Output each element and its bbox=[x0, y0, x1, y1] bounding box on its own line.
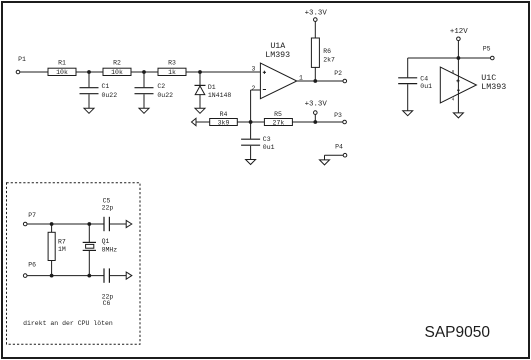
wire P1 to R1 bbox=[20, 71, 48, 73]
op-amp U1C bbox=[440, 67, 506, 103]
resistor R2 bbox=[103, 59, 131, 76]
svg-text:0u1: 0u1 bbox=[263, 144, 275, 151]
svg-text:P2: P2 bbox=[334, 70, 342, 77]
svg-text:8MHz: 8MHz bbox=[102, 246, 118, 253]
junction node D bbox=[249, 120, 253, 124]
resistor R1 bbox=[48, 59, 76, 76]
junction node E bbox=[313, 120, 317, 124]
ground below C3 bbox=[246, 160, 256, 165]
svg-text:1M: 1M bbox=[58, 246, 66, 253]
arrow feedback in bbox=[192, 118, 197, 125]
svg-text:22p: 22p bbox=[102, 204, 114, 211]
svg-text:U1C: U1C bbox=[481, 74, 496, 83]
wire pin2 to feedback node bbox=[251, 90, 261, 122]
svg-text:R6: R6 bbox=[323, 48, 331, 55]
node P4 bbox=[335, 144, 347, 157]
resistor R3 bbox=[158, 59, 186, 76]
junction node B bbox=[142, 70, 146, 74]
wire R5 to P3 bbox=[292, 121, 343, 123]
capacitor C2 bbox=[135, 72, 174, 108]
diode D1 bbox=[195, 72, 232, 108]
wire output to P2 bbox=[297, 80, 343, 82]
svg-text:LM393: LM393 bbox=[265, 51, 290, 60]
svg-text:R7: R7 bbox=[58, 238, 66, 245]
svg-text:+3.3V: +3.3V bbox=[305, 9, 328, 17]
svg-text:P6: P6 bbox=[28, 262, 36, 269]
svg-text:R4: R4 bbox=[220, 111, 228, 118]
ground below C1 bbox=[84, 108, 94, 113]
svg-text:2: 2 bbox=[252, 85, 256, 92]
svg-text:P1: P1 bbox=[18, 56, 26, 63]
svg-text:4: 4 bbox=[452, 96, 455, 102]
svg-text:1: 1 bbox=[299, 75, 303, 82]
svg-text:P4: P4 bbox=[335, 144, 343, 151]
wire supply through U1C to ground bbox=[457, 58, 459, 113]
ground P4 bbox=[320, 160, 330, 165]
svg-text:U1A: U1A bbox=[270, 42, 285, 51]
svg-text:C5: C5 bbox=[103, 197, 111, 204]
junction Q1 top bbox=[87, 222, 91, 226]
svg-text:C1: C1 bbox=[102, 83, 110, 90]
svg-text:0u22: 0u22 bbox=[157, 92, 173, 99]
junction R7 bottom bbox=[50, 274, 54, 278]
op-amp U1A bbox=[260, 42, 296, 99]
svg-text:C4: C4 bbox=[420, 75, 428, 82]
capacitor C4 bbox=[398, 58, 432, 111]
capacitor C1 bbox=[80, 72, 118, 108]
wire R6 to output node bbox=[314, 67, 316, 81]
wire R1 to node A bbox=[76, 71, 103, 73]
ground below C4 bbox=[403, 111, 413, 116]
svg-text:1k: 1k bbox=[168, 69, 176, 76]
svg-text:SAP9050: SAP9050 bbox=[425, 324, 491, 341]
ground below D1 bbox=[195, 108, 205, 113]
power +3.3V mid bbox=[305, 101, 328, 122]
svg-text:Q1: Q1 bbox=[102, 238, 110, 245]
wire P4 to ground bbox=[325, 155, 344, 160]
power +12V bbox=[450, 28, 468, 58]
junction supply node bbox=[457, 56, 461, 60]
wire supply rail to P5 bbox=[408, 57, 491, 59]
svg-text:3: 3 bbox=[252, 65, 256, 72]
ground below U1C bbox=[453, 113, 463, 118]
wire +3.3V to R6 bbox=[314, 21, 316, 38]
wire P7 rail bbox=[27, 223, 104, 225]
svg-text:R3: R3 bbox=[168, 59, 176, 66]
arrow C6 out bbox=[126, 272, 132, 279]
minus input mark bbox=[263, 89, 266, 91]
node P5 bbox=[483, 46, 494, 60]
junction Q1 bottom bbox=[87, 274, 91, 278]
plus input mark bbox=[263, 71, 266, 74]
capacitor C3 bbox=[241, 122, 275, 159]
plus mark U1C bbox=[456, 79, 459, 82]
svg-text:D1: D1 bbox=[208, 84, 216, 91]
svg-text:P3: P3 bbox=[334, 112, 342, 119]
svg-text:3k9: 3k9 bbox=[218, 119, 230, 126]
node P3 bbox=[334, 112, 346, 124]
arrow C5 out bbox=[126, 220, 132, 227]
svg-text:C2: C2 bbox=[157, 83, 165, 90]
resistor R6 bbox=[311, 38, 335, 67]
node P7 bbox=[23, 212, 36, 226]
svg-text:R5: R5 bbox=[274, 111, 282, 118]
resistor R4 bbox=[210, 111, 238, 126]
svg-text:10k: 10k bbox=[111, 69, 123, 76]
node P6 bbox=[23, 262, 36, 278]
junction output node bbox=[313, 79, 317, 83]
svg-text:0u22: 0u22 bbox=[102, 92, 118, 99]
svg-text:+12V: +12V bbox=[450, 28, 468, 36]
minus mark U1C bbox=[457, 89, 460, 91]
svg-text:P7: P7 bbox=[28, 212, 36, 219]
node P2 bbox=[334, 70, 346, 83]
svg-text:R2: R2 bbox=[113, 59, 121, 66]
ground below C2 bbox=[139, 108, 149, 113]
svg-text:1N4148: 1N4148 bbox=[208, 92, 232, 99]
junction R7 top bbox=[50, 222, 54, 226]
crystal Q1 bbox=[83, 224, 118, 276]
wire P6 rail bbox=[27, 275, 104, 277]
wire R3 to op-amp input bbox=[186, 71, 260, 73]
junction node A bbox=[87, 70, 91, 74]
power +3.3V top bbox=[305, 9, 328, 21]
junction node C bbox=[198, 70, 202, 74]
resistor R7 bbox=[48, 224, 66, 276]
svg-text:P5: P5 bbox=[483, 46, 491, 53]
resistor R5 bbox=[264, 111, 292, 127]
svg-text:C3: C3 bbox=[263, 136, 271, 143]
capacitor C6 bbox=[102, 268, 127, 307]
svg-text:8: 8 bbox=[452, 69, 455, 75]
dashed enclosure box bbox=[7, 183, 141, 345]
wire R2 to node B bbox=[131, 71, 158, 73]
node P1 bbox=[16, 56, 26, 74]
svg-text:27k: 27k bbox=[273, 119, 285, 126]
wire arrow to R4 bbox=[196, 121, 210, 123]
svg-text:direkt an der CPU löten: direkt an der CPU löten bbox=[23, 320, 113, 327]
svg-text:2k7: 2k7 bbox=[323, 57, 335, 64]
wire R4 to node D bbox=[237, 121, 264, 123]
svg-text:+3.3V: +3.3V bbox=[305, 101, 328, 109]
svg-text:10k: 10k bbox=[56, 69, 68, 76]
svg-text:R1: R1 bbox=[58, 59, 66, 66]
svg-text:LM393: LM393 bbox=[481, 83, 506, 92]
svg-text:C6: C6 bbox=[103, 300, 111, 307]
capacitor C5 bbox=[102, 197, 127, 231]
svg-text:0u1: 0u1 bbox=[420, 83, 432, 90]
